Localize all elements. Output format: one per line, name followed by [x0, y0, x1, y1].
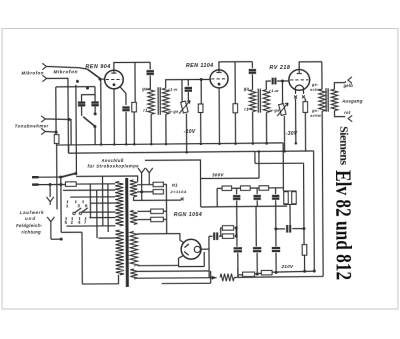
wire sec top to term — [345, 81, 346, 82]
svg-text:Elv 82 und 812: Elv 82 und 812 — [331, 170, 357, 280]
terminal strobe 1 — [138, 168, 145, 200]
terminal microphone upper — [42, 63, 46, 69]
wire loop bottom1 — [61, 231, 82, 233]
capacitor C13 — [234, 248, 242, 251]
node grid3 — [281, 79, 284, 82]
wire loop to winding — [118, 275, 120, 284]
transformer T3 core — [326, 88, 328, 112]
wire H1 right join — [163, 184, 166, 233]
wire grid junction down — [100, 80, 102, 145]
wire tap y200 — [134, 197, 182, 201]
wire tap 211 — [82, 211, 115, 213]
transformer T4 sec 3 — [130, 231, 138, 266]
node mains switch end — [74, 172, 77, 175]
transformer T4 sec 2 — [130, 210, 137, 224]
svg-text:Feldgleich-: Feldgleich- — [16, 223, 43, 228]
wire tube1 cathode — [113, 89, 115, 144]
svg-text:w-ga: w-ga — [168, 109, 179, 114]
strand v2 — [96, 190, 98, 238]
resistor H1a — [153, 182, 163, 186]
wire T2 sec bottom — [265, 113, 267, 144]
wire tap 202 — [90, 202, 115, 204]
wire c10 down — [256, 200, 258, 206]
wire anode2 to C6 — [251, 62, 253, 68]
wire R12 down — [304, 255, 306, 271]
wire pickup branch — [69, 119, 71, 144]
capacitor C6 — [249, 70, 256, 73]
wire R5 riser — [304, 98, 306, 101]
row2 line — [201, 205, 288, 208]
resistor R5 — [303, 102, 308, 113]
junction rail B 300V — [258, 150, 261, 153]
junction bus A 2 — [125, 143, 128, 146]
transformer T4 sec 1 — [130, 180, 138, 197]
resistor R6 — [222, 226, 233, 230]
wire R5 down — [304, 112, 306, 151]
capacitor C7 — [273, 78, 276, 85]
wire sec2 top tap — [137, 210, 150, 212]
resistor R12 — [302, 245, 307, 256]
svg-text:w-ga: w-ga — [269, 108, 280, 113]
wire R3 down — [200, 112, 202, 143]
wire selector drop — [60, 177, 62, 232]
wire R11 down — [289, 204, 291, 228]
wire tap 237 — [98, 237, 115, 239]
junction bus A 3 — [133, 143, 136, 146]
rail C strobe — [145, 160, 201, 179]
svg-text:2×1104: 2×1104 — [169, 189, 186, 194]
resistor R10 — [259, 186, 269, 190]
svg-text:r1-w: r1-w — [269, 88, 279, 93]
wire C2 bottom — [94, 106, 96, 113]
capacitor C15 — [272, 248, 280, 251]
selector contact studs row1 — [67, 200, 83, 203]
resistor R7 — [222, 234, 233, 238]
switch contact b — [86, 87, 89, 90]
rail B — [69, 151, 314, 153]
node bus railB — [313, 270, 316, 273]
fuse F1 — [65, 182, 76, 186]
wire C1 bottom — [81, 106, 83, 116]
transformer T4 core — [126, 178, 128, 287]
resistor R3 — [198, 104, 203, 113]
node L2 drop — [59, 183, 62, 186]
bottom bus 2 mid — [255, 272, 262, 275]
node R1 top — [55, 131, 58, 134]
terminal pickup upper — [41, 116, 45, 122]
junction bus A 9 — [252, 142, 255, 145]
wire tap 196 — [70, 196, 115, 198]
wire row1 left riser — [216, 188, 218, 206]
wire T1 sec top to grid2 — [166, 79, 210, 88]
wire tube1 anode — [114, 62, 150, 70]
tube REN 904 (U1) — [105, 70, 124, 89]
transformer T1 secondary — [162, 88, 169, 114]
junction bus A 7 — [218, 143, 221, 146]
wire sec1 top tap — [137, 184, 153, 186]
wire C3 down — [125, 112, 127, 144]
pin mark x right — [302, 95, 305, 98]
svg-text:-10V: -10V — [184, 129, 196, 135]
resistor R14 — [243, 272, 255, 276]
resistor H2a — [151, 209, 164, 213]
svg-text:4: 4 — [78, 220, 81, 225]
wire cathode to cap — [209, 235, 213, 237]
wire anode3 to primary — [321, 62, 323, 89]
wire pot1 riser — [181, 80, 183, 102]
terminal Laufwerk 1 — [47, 197, 54, 205]
wire fil line 3 — [138, 277, 217, 279]
wire S2 down to bus — [94, 127, 96, 145]
wire T3 sec top — [334, 83, 345, 90]
svg-text:Anschluß: Anschluß — [100, 158, 123, 163]
wire pot2 down — [283, 116, 285, 152]
terminal Laufwerk 2 — [47, 217, 54, 239]
wire tube3 fil right — [303, 89, 305, 94]
wire C2 top — [94, 95, 96, 102]
terminal microphone lower — [42, 75, 46, 81]
junction bus A 8 — [234, 142, 237, 145]
wire f2 vert — [255, 206, 257, 246]
svg-text:3: 3 — [77, 203, 80, 208]
junction bus A 11 — [295, 142, 298, 145]
capacitor C1 — [78, 103, 85, 106]
junction rail B pot2 — [283, 150, 286, 153]
wire c9 riser — [236, 188, 238, 194]
switch contact a — [76, 80, 79, 83]
transformer T4 primary left upper — [115, 181, 123, 226]
wire anode to C4 — [149, 62, 151, 69]
node c12 left — [274, 227, 277, 230]
svg-text:r1-w: r1-w — [168, 87, 178, 92]
svg-text:Laufwerk: Laufwerk — [20, 210, 44, 215]
resistor R2 — [132, 102, 137, 112]
svg-text:richtung: richtung — [21, 229, 41, 234]
wire pickup lower — [45, 130, 56, 133]
wire tube3 anode — [299, 62, 322, 70]
wire anode2 branch — [234, 62, 236, 104]
wire mains L2 — [39, 183, 66, 185]
junction bus A 0 — [100, 143, 103, 146]
wire f3 down — [275, 253, 277, 273]
wire laufwerk2 to drop — [51, 238, 61, 240]
wire R1 down — [56, 143, 58, 209]
selector arm a — [73, 212, 75, 214]
selector arm b — [79, 212, 81, 214]
switch S1 arm — [87, 69, 100, 78]
junction bus A 5 — [165, 143, 168, 146]
wire f1 down — [237, 253, 239, 277]
capacitor C12 — [287, 225, 290, 233]
svg-text:gelb: gelb — [342, 83, 353, 88]
wire H2b right join — [163, 218, 166, 220]
wire C5 down — [187, 92, 189, 101]
resistor R9 — [240, 186, 250, 190]
wire pickup upper — [45, 118, 69, 121]
transformer T1 core — [158, 87, 160, 115]
wire fil line 4 — [162, 282, 211, 284]
junction bus A 6 — [200, 143, 203, 146]
x mark tap200 — [181, 198, 184, 201]
wire tube2 cathode — [218, 88, 220, 144]
bus A filament rail — [57, 143, 284, 145]
junction bus A 4 — [150, 143, 153, 146]
svg-text:RV 218: RV 218 — [269, 65, 290, 71]
capacitor C3 — [122, 107, 129, 110]
wire loop bottom2 — [82, 283, 118, 285]
capacitor C11 — [272, 196, 279, 199]
resistor H1b — [153, 190, 163, 194]
wire to R1 — [55, 87, 57, 135]
wire vertical input line — [67, 87, 69, 153]
pin mark x left — [294, 95, 297, 98]
svg-text:RGN 1054: RGN 1054 — [174, 212, 203, 218]
wire fil left down — [295, 98, 297, 143]
node grid tube1 — [98, 78, 101, 81]
wire T2 primary bottom — [252, 112, 254, 144]
svg-text:ga: ga — [141, 86, 148, 91]
transformer T2 secondary — [263, 90, 270, 113]
bottom bus 2 — [238, 274, 243, 276]
capacitor C8 — [214, 232, 217, 240]
300V line — [201, 177, 259, 179]
wire R3 riser — [200, 79, 202, 103]
potentiometer P2 — [279, 104, 286, 116]
wire T3 primary bottom down — [322, 111, 323, 276]
wire C4 to primary — [149, 76, 151, 89]
wire c12 line — [276, 228, 285, 230]
wire cap riser — [81, 87, 95, 102]
wire RGN anode top — [137, 234, 183, 244]
wire mic lower — [46, 78, 68, 87]
svg-text:Mikrofon: Mikrofon — [53, 69, 78, 75]
strand v3 — [102, 176, 104, 226]
capacitor C5 — [185, 88, 192, 91]
wire link line — [75, 85, 78, 174]
node c12 right — [302, 227, 305, 230]
terminal output gelb — [348, 77, 352, 83]
wire rail D drop — [254, 151, 256, 163]
resistor R15 — [261, 270, 272, 274]
arrow fil line 3 — [212, 276, 217, 280]
wire pair fork — [221, 228, 223, 236]
svg-text:1: 1 — [66, 203, 69, 208]
wire RGN cathode out — [201, 248, 209, 250]
wire cathode vert — [208, 236, 210, 277]
svg-text:und: und — [25, 216, 36, 221]
svg-text:Ausgang: Ausgang — [341, 99, 363, 104]
wire tube3 fil left — [295, 89, 297, 94]
wire tap 189 — [63, 189, 115, 191]
wire fil riser — [203, 252, 205, 266]
wire mains L1 — [39, 176, 61, 178]
bottom bus 1 — [234, 275, 323, 278]
wire tap 217 — [89, 217, 115, 219]
svg-text:rot: rot — [344, 110, 351, 115]
node strobe1 join — [140, 190, 143, 193]
capacitor C9 — [233, 196, 240, 199]
wire c12 line2 — [292, 228, 304, 230]
wire switch to tube1 grid — [100, 78, 105, 80]
junction tick C13 bus — [237, 268, 239, 276]
capacitor C2 — [91, 102, 98, 105]
capacitor C14 — [253, 248, 261, 251]
transformer T3 primary — [319, 89, 326, 111]
resistor R13 surge — [220, 274, 234, 282]
wire C8 to pair — [219, 235, 222, 237]
row1 line — [217, 187, 283, 190]
wire c11 riser — [275, 188, 277, 194]
resistor R1 — [54, 135, 59, 144]
node C2 bottom — [94, 112, 97, 115]
wire tube2 anode — [219, 62, 252, 70]
svg-text:300V: 300V — [212, 172, 224, 177]
wire pot1 down — [185, 114, 187, 153]
svg-text:Siemens: Siemens — [337, 126, 351, 165]
node mains switch — [59, 176, 62, 179]
wire mic upper to switch — [46, 66, 87, 69]
wire cathode RC — [120, 87, 126, 105]
wire fil line 2 — [138, 270, 209, 272]
wire laufwerk1 up — [49, 185, 51, 197]
wire bus A right drop — [282, 143, 284, 191]
transformer T4 primary left lower — [115, 230, 123, 275]
node pickup junction — [67, 118, 70, 121]
capacitor C10 — [253, 196, 260, 199]
svg-text:r1: r1 — [143, 108, 148, 113]
wire C5 riser — [187, 80, 189, 86]
wire c11 down — [275, 200, 277, 206]
bottom bus 2 right — [272, 270, 315, 273]
strand v4 — [107, 184, 109, 232]
wire f1 vert — [236, 206, 238, 246]
node R7 right — [235, 235, 238, 238]
wire T3 sec bottom — [335, 111, 346, 117]
wire H2 right join — [163, 210, 166, 212]
potentiometer P1 — [181, 101, 188, 113]
terminal output rot — [348, 115, 352, 121]
mains plug lower prong — [32, 183, 38, 185]
wire pair join — [235, 228, 237, 236]
wire 300V drop — [200, 178, 202, 206]
svg-text:Mikrofon: Mikrofon — [21, 70, 44, 75]
capacitor C4 — [146, 71, 153, 74]
mains switch arm — [61, 173, 77, 177]
node bus f2 — [256, 273, 259, 276]
switch S2 arm — [83, 117, 95, 127]
resistor H2b — [151, 217, 164, 221]
svg-text:6: 6 — [85, 203, 88, 208]
wire mains L1 cont — [76, 176, 138, 182]
svg-text:H1: H1 — [172, 182, 178, 187]
wire sec1 low tap — [137, 191, 153, 193]
wire rail B left riser — [68, 145, 70, 153]
tube RV 218 (U3) — [289, 69, 310, 90]
junction bus A 1 — [113, 143, 116, 146]
wire c10 riser — [256, 188, 258, 194]
transformer T3 secondary — [331, 89, 338, 111]
wire f2 down — [256, 253, 258, 275]
junction rail B pot1 — [185, 151, 188, 154]
wire f3 vert — [275, 206, 277, 246]
svg-text:REN 904: REN 904 — [85, 64, 110, 70]
svg-text:2: 2 — [71, 220, 74, 225]
wire fil riser 2 — [210, 271, 212, 283]
svg-text:5: 5 — [65, 220, 68, 225]
wire R4 down — [234, 113, 236, 144]
wire T1 sec bottom — [165, 114, 167, 144]
resistor R8 — [222, 186, 232, 190]
svg-text:210V: 210V — [281, 264, 294, 269]
wire y86 branch — [56, 86, 95, 88]
wire loop left — [81, 232, 83, 284]
transformer T4 sec 4 — [130, 269, 137, 279]
svg-text:Tonabnehmer: Tonabnehmer — [15, 123, 49, 128]
wire fil line 1 — [178, 265, 204, 267]
svg-text:REN 1104: REN 1104 — [186, 63, 214, 69]
transformer T2 primary — [249, 90, 256, 112]
wire rail B right drop — [313, 151, 316, 271]
wire c9 down — [236, 201, 238, 207]
terminal pickup lower — [41, 128, 45, 134]
selector contact studs row2 — [66, 217, 86, 220]
mains plug upper prong — [32, 176, 38, 178]
svg-text:für Stroboskoplampe: für Stroboskoplampe — [87, 163, 139, 168]
svg-text:7: 7 — [84, 220, 87, 225]
rectifier RGN 1054 (U4) — [181, 239, 201, 259]
wire anode branch — [134, 62, 136, 102]
node S2 contact — [93, 125, 96, 128]
node R6 right — [235, 226, 238, 229]
wire C6 to primary — [251, 74, 253, 89]
svg-text:schw: schw — [310, 113, 322, 118]
wire sec2 low tap — [137, 219, 150, 221]
wire R12 vert — [303, 163, 305, 244]
terminal strobe 2 — [146, 168, 153, 185]
tube REN 1104 (U2) — [210, 70, 228, 88]
wire 300V riser — [258, 151, 260, 178]
transformer T1 primary — [148, 88, 155, 114]
wire T1 primary bottom — [150, 114, 152, 144]
wire pot2 riser — [281, 81, 283, 104]
wire RGN anode bottom — [138, 256, 183, 266]
resistor R4 — [233, 104, 238, 113]
node bus f3 — [275, 271, 278, 274]
wire T2 sec top — [266, 81, 271, 90]
strand v1 — [89, 184, 91, 218]
wire tap 225 — [66, 225, 115, 227]
wire mains L2 cont — [76, 183, 115, 185]
node bus R12 — [303, 270, 306, 273]
node laufwerk2 join — [60, 238, 63, 241]
node grid2 — [200, 78, 203, 81]
wire R2 down — [133, 112, 135, 144]
resistor pair R11 — [283, 191, 296, 205]
rail D — [255, 162, 304, 164]
transformer T2 core — [258, 89, 260, 113]
wire C7 to grid3 — [277, 80, 289, 82]
junction bus A 10 — [265, 142, 268, 145]
node L2 lauf — [49, 183, 52, 186]
